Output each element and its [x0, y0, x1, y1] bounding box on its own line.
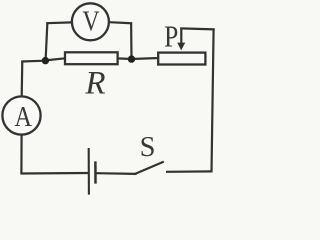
switch S lever	[134, 162, 164, 175]
svg-text:S: S	[140, 132, 156, 163]
svg-text:V: V	[82, 6, 99, 37]
wire: voltmeter right lead (horizontal)	[109, 22, 132, 23]
wire: top-right horizontal from wiper to right rail	[180, 28, 214, 29]
node A (left junction dot)	[42, 57, 49, 64]
wire: battery negative side to switch pivot	[96, 172, 136, 175]
svg-text:R: R	[84, 66, 105, 102]
wire: bottom-right from switch contact to right rail corner	[166, 170, 213, 173]
wire: left rail horizontal into left node	[21, 60, 45, 63]
wire: bottom wire from left corner to battery positive plate	[20, 172, 88, 175]
resistor R body	[65, 52, 118, 64]
rheostat P body	[158, 53, 205, 65]
wire: left node to resistor R left terminal	[45, 58, 65, 60]
rheostat wiper arrow	[177, 28, 185, 51]
wire: right rail vertical	[212, 28, 214, 172]
wire: vertical from voltmeter right lead down to right node	[130, 22, 133, 59]
ammeter A1 circle	[2, 96, 40, 134]
wire: left rail vertical, node down to ammeter	[21, 61, 24, 97]
battery B1 short plate (right)	[94, 161, 97, 183]
svg-text:A: A	[14, 100, 31, 132]
svg-text:P: P	[164, 20, 178, 54]
wire: left rail vertical, ammeter down to bottom corner	[20, 135, 22, 174]
node B (right junction dot)	[128, 55, 135, 62]
wire: resistor R right terminal to right node	[117, 57, 132, 60]
wire: voltmeter left lead (horizontal, top-left)	[46, 21, 72, 24]
background paper	[0, 0, 217, 199]
voltmeter U1 circle	[72, 3, 109, 40]
wire: vertical from top-left corner down to left node	[46, 22, 48, 60]
battery B1 long plate (left)	[88, 148, 90, 195]
wire: right node to rheostat P left terminal	[131, 58, 159, 59]
